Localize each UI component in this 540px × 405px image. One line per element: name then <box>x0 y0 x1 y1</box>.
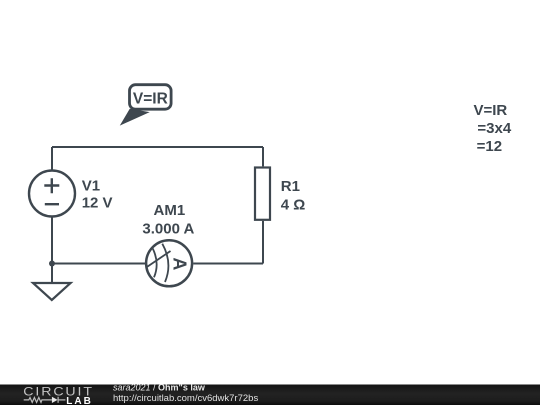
svg-text:LAB: LAB <box>66 396 93 405</box>
voltage source V1 <box>29 171 75 217</box>
node junction dot <box>49 261 55 267</box>
resistor R1 <box>255 168 270 220</box>
svg-text:=3x4: =3x4 <box>477 120 511 137</box>
wire bottom left horizontal <box>52 263 145 265</box>
wire from R1 bottom to bottom-right corner <box>262 221 264 264</box>
svg-text:V=IR: V=IR <box>133 91 168 108</box>
ammeter AM1 <box>146 240 192 286</box>
svg-text:3.000 A: 3.000 A <box>142 220 194 237</box>
wire top horizontal <box>52 146 263 148</box>
svg-text:V1: V1 <box>82 178 100 195</box>
svg-text:12 V: 12 V <box>82 195 113 212</box>
wire from top-right corner to R1 top <box>262 147 264 166</box>
svg-text:R1: R1 <box>281 178 300 195</box>
svg-text:sara2021 / Ohm"s law: sara2021 / Ohm"s law <box>113 383 206 393</box>
svg-text:AM1: AM1 <box>154 202 186 219</box>
ground <box>33 283 71 300</box>
svg-text:http://circuitlab.com/cv6dwk7r: http://circuitlab.com/cv6dwk7r72bs <box>113 393 258 404</box>
svg-text:4 Ω: 4 Ω <box>281 197 306 214</box>
CircuitLab logo resistor-diode wire <box>24 397 66 403</box>
annotation bubble tail <box>121 109 148 124</box>
annotation bubble V=IR <box>130 85 172 110</box>
wire from V1 top to top-left corner <box>51 147 53 171</box>
svg-text:=12: =12 <box>477 138 502 155</box>
wire from V1 bottom to ground <box>51 217 53 282</box>
CircuitLab logo diode <box>52 397 58 403</box>
svg-text:A: A <box>169 257 189 270</box>
footer bar <box>0 385 540 405</box>
svg-text:V=IR: V=IR <box>474 102 508 119</box>
wire bottom right horizontal <box>193 263 263 265</box>
